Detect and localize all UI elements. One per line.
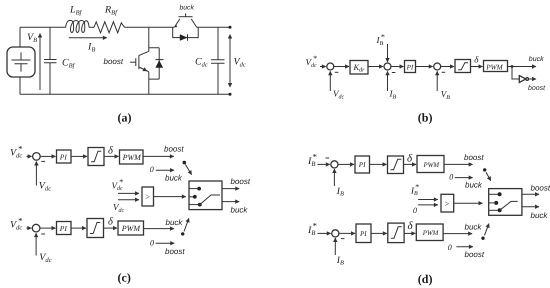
svg-text:buck: buck (166, 218, 184, 227)
svg-text:Cdc: Cdc (195, 57, 208, 69)
svg-text:*: * (313, 54, 317, 63)
svg-text:(a): (a) (118, 111, 132, 125)
svg-text:*: * (415, 182, 419, 191)
svg-text:PWM: PWM (122, 153, 143, 162)
svg-text:buck: buck (531, 211, 549, 220)
svg-text:PI: PI (59, 224, 68, 233)
svg-text:buck: buck (465, 180, 483, 189)
svg-text:PWM: PWM (121, 224, 142, 233)
svg-text:PI: PI (358, 161, 366, 169)
svg-text:VB: VB (441, 89, 451, 101)
svg-text:VB: VB (27, 32, 37, 44)
svg-text:Vdc: Vdc (113, 202, 125, 214)
svg-text:boost: boost (465, 250, 485, 259)
svg-text:PI: PI (59, 153, 68, 162)
svg-text:PI: PI (406, 63, 414, 71)
svg-text:IB: IB (336, 187, 344, 198)
svg-text:IB: IB (389, 89, 397, 101)
svg-text:δ: δ (108, 145, 114, 156)
svg-text:(c): (c) (118, 271, 131, 285)
svg-text:δ: δ (407, 153, 413, 165)
svg-text:>: > (444, 199, 450, 209)
svg-text:PWM: PWM (422, 230, 439, 237)
svg-text:(d): (d) (418, 272, 433, 286)
svg-text:Vdc: Vdc (333, 89, 345, 101)
svg-text:buck: buck (465, 222, 483, 231)
svg-text:boost: boost (104, 57, 124, 66)
svg-text:PWM: PWM (485, 64, 503, 72)
svg-text:(b): (b) (418, 111, 433, 125)
svg-text:CBf: CBf (62, 58, 76, 70)
svg-text:PI: PI (359, 230, 367, 238)
svg-text:0: 0 (413, 206, 417, 215)
svg-text:*: * (18, 144, 23, 154)
svg-text:boost: boost (528, 84, 546, 92)
svg-text:boost: boost (165, 247, 185, 256)
svg-text:*: * (119, 177, 123, 186)
svg-text:RBf: RBf (104, 5, 118, 17)
svg-text:buck: buck (231, 206, 249, 215)
svg-text:*: * (18, 215, 23, 225)
svg-text:δ: δ (108, 216, 114, 227)
svg-text:>: > (145, 192, 151, 202)
svg-text:*: * (312, 151, 317, 161)
svg-text:boost: boost (464, 153, 484, 162)
svg-text:IB: IB (336, 256, 344, 267)
svg-text:*: * (312, 220, 317, 230)
svg-text:Vdc: Vdc (39, 252, 51, 264)
svg-text:δ: δ (474, 55, 479, 65)
svg-text:IB: IB (87, 42, 95, 54)
svg-text:buck: buck (180, 4, 195, 11)
svg-text:0: 0 (150, 238, 154, 247)
svg-text:PWM: PWM (423, 162, 440, 169)
svg-text:Vdc: Vdc (39, 180, 51, 192)
svg-text:LBf: LBf (69, 5, 83, 17)
svg-text:boost: boost (531, 183, 550, 192)
svg-text:buck: buck (529, 55, 544, 63)
svg-text:*: * (381, 33, 385, 42)
svg-text:buck: buck (165, 173, 183, 182)
svg-text:boost: boost (164, 144, 184, 153)
svg-text:0: 0 (448, 243, 452, 252)
svg-text:0: 0 (150, 165, 154, 174)
svg-text:Vdc: Vdc (234, 57, 246, 69)
svg-text:boost: boost (231, 177, 251, 186)
svg-text:0: 0 (449, 173, 453, 182)
svg-text:δ: δ (408, 220, 414, 232)
